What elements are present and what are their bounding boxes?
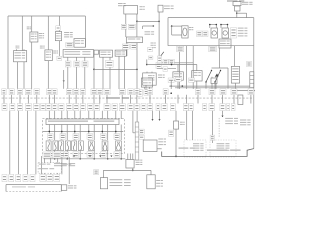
connector J2 pins <box>135 126 139 128</box>
label above J1 <box>247 62 252 67</box>
labels below U2 <box>65 61 71 67</box>
wire drop to module U7 <box>196 65 198 71</box>
text dimmer feed <box>110 179 123 180</box>
label harness c <box>188 78 194 82</box>
labels below K2 <box>122 44 129 49</box>
wire F1 left leg <box>125 14 127 24</box>
wire gauge M6 feed right <box>79 111 81 119</box>
text junction block note <box>240 120 246 121</box>
wire drop to A/C switch S1 <box>21 16 23 51</box>
label left low <box>137 89 142 96</box>
component U13 flasher <box>126 160 134 169</box>
label under gauge M7 <box>87 152 93 158</box>
node rail 0 <box>49 131 51 133</box>
label below U6 <box>144 90 149 96</box>
label harness a <box>168 78 174 83</box>
connector J1 pins <box>250 72 254 88</box>
gauge M7 element <box>89 141 95 151</box>
node J <box>132 170 134 172</box>
wire gauge M7 feed left <box>88 111 90 119</box>
label under gauge M4 <box>48 152 54 158</box>
text right of U12 <box>68 185 73 186</box>
arrow g3 <box>73 156 75 158</box>
wire S7b down <box>214 82 216 89</box>
switch S7 blade a <box>206 71 212 83</box>
arrow g4 <box>89 156 91 158</box>
wire U14 drop <box>150 170 152 174</box>
node CB1 out <box>236 13 237 14</box>
label small <box>156 62 162 68</box>
node G <box>146 64 148 66</box>
labels S8 row1 <box>43 152 51 158</box>
label under K2 text <box>148 47 153 52</box>
wire gauge M9 feed right <box>120 111 122 119</box>
wire U2 leg d down to connector <box>93 69 95 89</box>
wire stubs between rows <box>3 95 5 104</box>
label under gauge M9 <box>114 152 120 158</box>
wire U2 leg c <box>84 57 86 61</box>
wire drop to pressure switch <box>31 16 33 32</box>
label right of B1 <box>64 32 69 33</box>
arrow g6 <box>110 156 112 158</box>
wire S8 a <box>43 158 45 163</box>
component box K5 <box>174 121 179 129</box>
relay K4 <box>173 72 183 80</box>
module U15 <box>143 140 157 152</box>
text hot at all times <box>227 0 237 1</box>
gauge M2 <box>211 28 218 38</box>
text bus name <box>106 97 120 98</box>
wire drop to cutout relay <box>47 16 49 50</box>
component U14 <box>147 175 155 189</box>
module U8 with terminals <box>211 78 217 84</box>
gauge M6 element <box>72 141 77 151</box>
node D <box>158 21 160 23</box>
labels stacked <box>139 129 144 134</box>
wire S7a down <box>205 82 207 89</box>
wire drop v <box>170 80 172 89</box>
label compressor control <box>145 31 151 32</box>
wire left vertical from bus to connector row <box>7 16 9 89</box>
wire node F to gauge M1 top <box>172 25 182 27</box>
label box in U5 b <box>203 31 209 37</box>
component U10 on bus right <box>238 95 243 105</box>
wire right border <box>253 18 255 149</box>
wire K5 down <box>175 129 177 156</box>
text right of K5 <box>180 122 183 123</box>
wire border jog <box>162 149 254 157</box>
node H <box>171 64 173 66</box>
label under gauge M5 <box>60 152 66 158</box>
wire below K1 <box>47 61 49 89</box>
relay K3 under U5 <box>219 39 231 48</box>
wire arrow drop a <box>152 111 154 120</box>
wire gauge M4 feed right <box>54 111 56 119</box>
label above B1 <box>56 26 61 30</box>
labels S8 row2 <box>40 174 46 181</box>
fuse F1 block <box>124 6 138 15</box>
wire cluster edge drop <box>41 156 43 174</box>
wire horizontal center upper <box>159 62 193 64</box>
switch S5 contacts <box>209 25 211 29</box>
gauge M3 <box>222 28 229 38</box>
wire below S2 <box>31 42 33 89</box>
wire U6 down <box>145 85 147 90</box>
label gauge M6 <box>73 134 79 140</box>
wire horizontal center <box>147 64 197 66</box>
wire U5 legs down <box>179 45 181 48</box>
wire into block1 a <box>186 111 188 140</box>
text inside U12 <box>12 186 26 187</box>
text above F1 <box>118 3 123 4</box>
wire to gauge M1 bottom <box>172 34 182 36</box>
text right of S8 box <box>63 164 68 165</box>
sensor B1 coolant temp <box>55 32 61 41</box>
wire K3 down long <box>219 48 221 68</box>
text above bottom path b <box>207 150 227 151</box>
wire U3 leg a <box>102 57 104 89</box>
wire CB1 branch <box>237 12 247 14</box>
connector C1 upper label row <box>2 89 7 95</box>
wire drop L4 <box>35 111 37 175</box>
node I <box>182 85 184 87</box>
wire gauge M6 feed left <box>74 111 76 119</box>
gauge M5 element <box>59 141 64 151</box>
wire drop to relay K4 <box>177 65 179 72</box>
wire S8 b <box>50 158 52 163</box>
text above bottom path a <box>179 148 189 149</box>
wire gauge M5 feed left <box>61 111 63 119</box>
text right of U15 <box>158 139 163 140</box>
text right of arrow c <box>225 118 233 119</box>
wire drop L2 <box>18 111 20 175</box>
wire K2 leg a <box>126 43 128 44</box>
labels below U3 <box>106 60 114 67</box>
wire gauge M7 down <box>93 150 95 159</box>
node A junction <box>93 69 95 71</box>
switch S6 contacts <box>220 25 222 29</box>
wire S3 left leg down <box>17 62 19 89</box>
label gauge M7 <box>87 134 93 140</box>
label gauge M5 <box>60 134 66 140</box>
wire K5 up <box>175 111 177 121</box>
wire feed to node G <box>146 59 148 64</box>
text right in U5 <box>238 28 244 29</box>
wire gauge M6 down <box>79 150 81 159</box>
text right of U6 <box>158 75 162 76</box>
wire drop M2 <box>136 111 138 122</box>
wire top feed bus <box>8 15 85 17</box>
text in S8 box row1 <box>39 164 46 165</box>
label gauge M8 <box>101 134 107 140</box>
text low fuel module <box>54 163 67 164</box>
label left of U1 <box>66 42 73 47</box>
labels on F1 legs <box>121 24 127 29</box>
wire gauge M8 down <box>107 150 109 159</box>
text right of U14 <box>156 180 160 181</box>
relay K2 box <box>126 37 142 43</box>
switch S4 blade <box>159 52 164 58</box>
module U1 sub-box <box>74 39 85 48</box>
wire cluster rail <box>43 130 123 132</box>
wire R1 feed <box>233 46 235 67</box>
wire gauges to flasher a <box>127 154 129 160</box>
wire U2 right terminal down <box>93 54 95 69</box>
wire gauge M9 feed left <box>115 111 117 119</box>
wire R1 out <box>235 83 237 89</box>
ground text block 2 dashed <box>210 140 236 157</box>
wire U8 legs <box>211 84 213 90</box>
label on B1 wire <box>57 56 62 60</box>
node K <box>175 156 177 158</box>
wire gauges to flasher b <box>129 154 131 160</box>
label box in U5 a <box>197 31 203 37</box>
wire gauge M8 feed right <box>107 111 109 119</box>
wire harness h2 <box>175 87 250 89</box>
module U3 <box>100 50 113 57</box>
module U9 above bus <box>141 78 152 87</box>
wire U4 leg a <box>118 56 120 89</box>
gauge M4 element <box>46 141 51 151</box>
label above relay K1 <box>40 46 43 47</box>
label right of F1 <box>140 6 143 7</box>
node F <box>171 25 173 27</box>
label gauge M4 <box>48 134 54 140</box>
label right of S2 <box>39 33 42 34</box>
bus connector dashed line C1 <box>2 97 106 99</box>
fuse F3 <box>233 2 241 6</box>
arrow g5 <box>99 156 101 158</box>
labels middle column a <box>163 59 168 64</box>
labels below U5 <box>177 46 184 52</box>
wire gauge M8 feed left <box>101 111 103 119</box>
wire horizontal center 2 <box>157 67 176 69</box>
text right of U13 <box>136 160 140 161</box>
switch S2 A/C pressure <box>30 32 38 42</box>
wire drop L1 <box>9 111 11 175</box>
label right of K1 <box>53 51 56 52</box>
wire S8 c <box>57 158 59 163</box>
wire branch with arrow <box>142 26 144 29</box>
label on center wire <box>148 56 153 59</box>
switch S7 blade b <box>215 71 221 83</box>
node R1b <box>253 90 255 92</box>
wire harness h1 <box>169 85 250 87</box>
label harness b <box>175 78 181 82</box>
wire arrow drop b <box>159 111 161 120</box>
label under gauge M8 <box>101 152 107 158</box>
label gauge M9 <box>114 134 120 140</box>
node H2 <box>170 92 172 94</box>
wire U4 leg b <box>124 56 126 89</box>
node C <box>136 21 138 23</box>
node B junction <box>136 69 138 71</box>
gauge M9 element <box>116 141 122 151</box>
wire gauge M5 down <box>66 150 68 159</box>
wire U13 down <box>132 168 134 170</box>
wire S8 d <box>61 157 63 174</box>
label on wire M3 <box>210 135 215 140</box>
wire gauge M7 feed right <box>93 111 95 119</box>
wire gauge M4 feed left <box>48 111 50 119</box>
cluster title box <box>46 119 119 125</box>
node rail 2 <box>74 131 76 133</box>
fuse F2 ignition <box>158 5 163 12</box>
connector C2 bottom label row <box>2 174 7 181</box>
wire S3 right leg down <box>23 62 25 89</box>
gauge M8 element <box>102 141 108 151</box>
wire gauge M4 down <box>54 150 56 159</box>
module U7 blower <box>192 71 202 81</box>
connector S8 dashed box <box>38 163 61 174</box>
node rail 3 <box>88 131 90 133</box>
wire CB1 down <box>236 11 238 18</box>
lamp E1 box <box>100 178 107 189</box>
wire below B1 <box>59 41 61 58</box>
wire node row <box>137 20 159 22</box>
node I2 <box>170 85 172 87</box>
text in S8 box row2 <box>39 168 48 169</box>
wire U2 leg b <box>76 57 78 61</box>
wire switch feed drop <box>227 68 229 89</box>
module U6 body <box>143 73 157 85</box>
node rail 1 <box>61 131 63 133</box>
module U5 instrument box outline <box>168 17 254 19</box>
terminal box U12 right <box>61 185 67 191</box>
node E <box>158 57 160 59</box>
label right of F2 <box>164 6 170 7</box>
connector J2 strip <box>135 122 139 160</box>
label right of M1 <box>189 27 192 28</box>
dashed ground lead <box>218 118 220 138</box>
wire arrow drop c <box>222 111 224 116</box>
wire K4 down <box>177 80 179 89</box>
terminal box on U2 right <box>94 50 98 54</box>
wire switch feed <box>212 67 229 69</box>
wire K2 leg b to node B <box>136 43 138 70</box>
wire S8 e <box>68 157 70 184</box>
wire node B down <box>136 69 138 89</box>
arrow marker on wire <box>63 81 65 83</box>
resistor R1 blower resistor <box>231 66 239 83</box>
text right of K2 <box>151 43 154 44</box>
wire right edge of blower module box <box>84 16 86 47</box>
node R1a <box>235 90 237 92</box>
wire F2 down <box>158 12 160 65</box>
wire gauges to flasher c <box>132 154 134 160</box>
node rail 4 <box>102 131 104 133</box>
wire drop M3 <box>212 111 214 135</box>
labels middle column b <box>169 59 174 64</box>
ground text block 1 dashed <box>184 140 206 157</box>
module U2 wide box <box>63 50 93 58</box>
label column right in U5 <box>231 28 237 38</box>
switch S3 with terminals <box>14 51 27 62</box>
wire gauge M9 down <box>120 150 122 159</box>
wire F1 right leg <box>136 14 138 21</box>
module U4 <box>115 50 126 56</box>
wire node F down <box>171 26 173 35</box>
wire into block1 b <box>192 111 194 140</box>
module U12 bottom box <box>6 184 61 186</box>
wire cross link <box>94 68 137 70</box>
label below K5 <box>169 130 174 136</box>
connector C1 lower label row <box>2 104 7 111</box>
label under gauge M6 <box>73 152 79 158</box>
wire R1 to border <box>236 90 254 92</box>
label above cluster switch S3 <box>16 46 18 47</box>
wire bottom link <box>103 169 151 171</box>
switch arrow <box>215 74 219 77</box>
circuit breaker CB1 <box>235 6 241 11</box>
wire drop M1 <box>132 111 134 133</box>
wire into relay K2 <box>125 29 127 37</box>
wire U7 down <box>196 81 198 89</box>
relay K1 <box>45 50 52 61</box>
wire gauge M5 feed right <box>66 111 68 119</box>
gauge M1 box with dial <box>182 26 188 38</box>
module U11 cluster dashed outline <box>43 119 125 154</box>
wire lower rail <box>44 158 126 160</box>
wire drop L3 <box>27 111 29 175</box>
wire U2 leg a <box>67 57 69 61</box>
label on lamp wire <box>94 170 99 175</box>
wire U3 leg b <box>109 57 111 60</box>
node rail 5 <box>115 131 117 133</box>
label center 2 <box>163 67 168 72</box>
label on ignition wire <box>157 56 162 63</box>
wire lamp drop <box>102 170 104 177</box>
wire drop to coolant sensor <box>59 16 61 32</box>
label A/C compressor <box>27 27 30 28</box>
